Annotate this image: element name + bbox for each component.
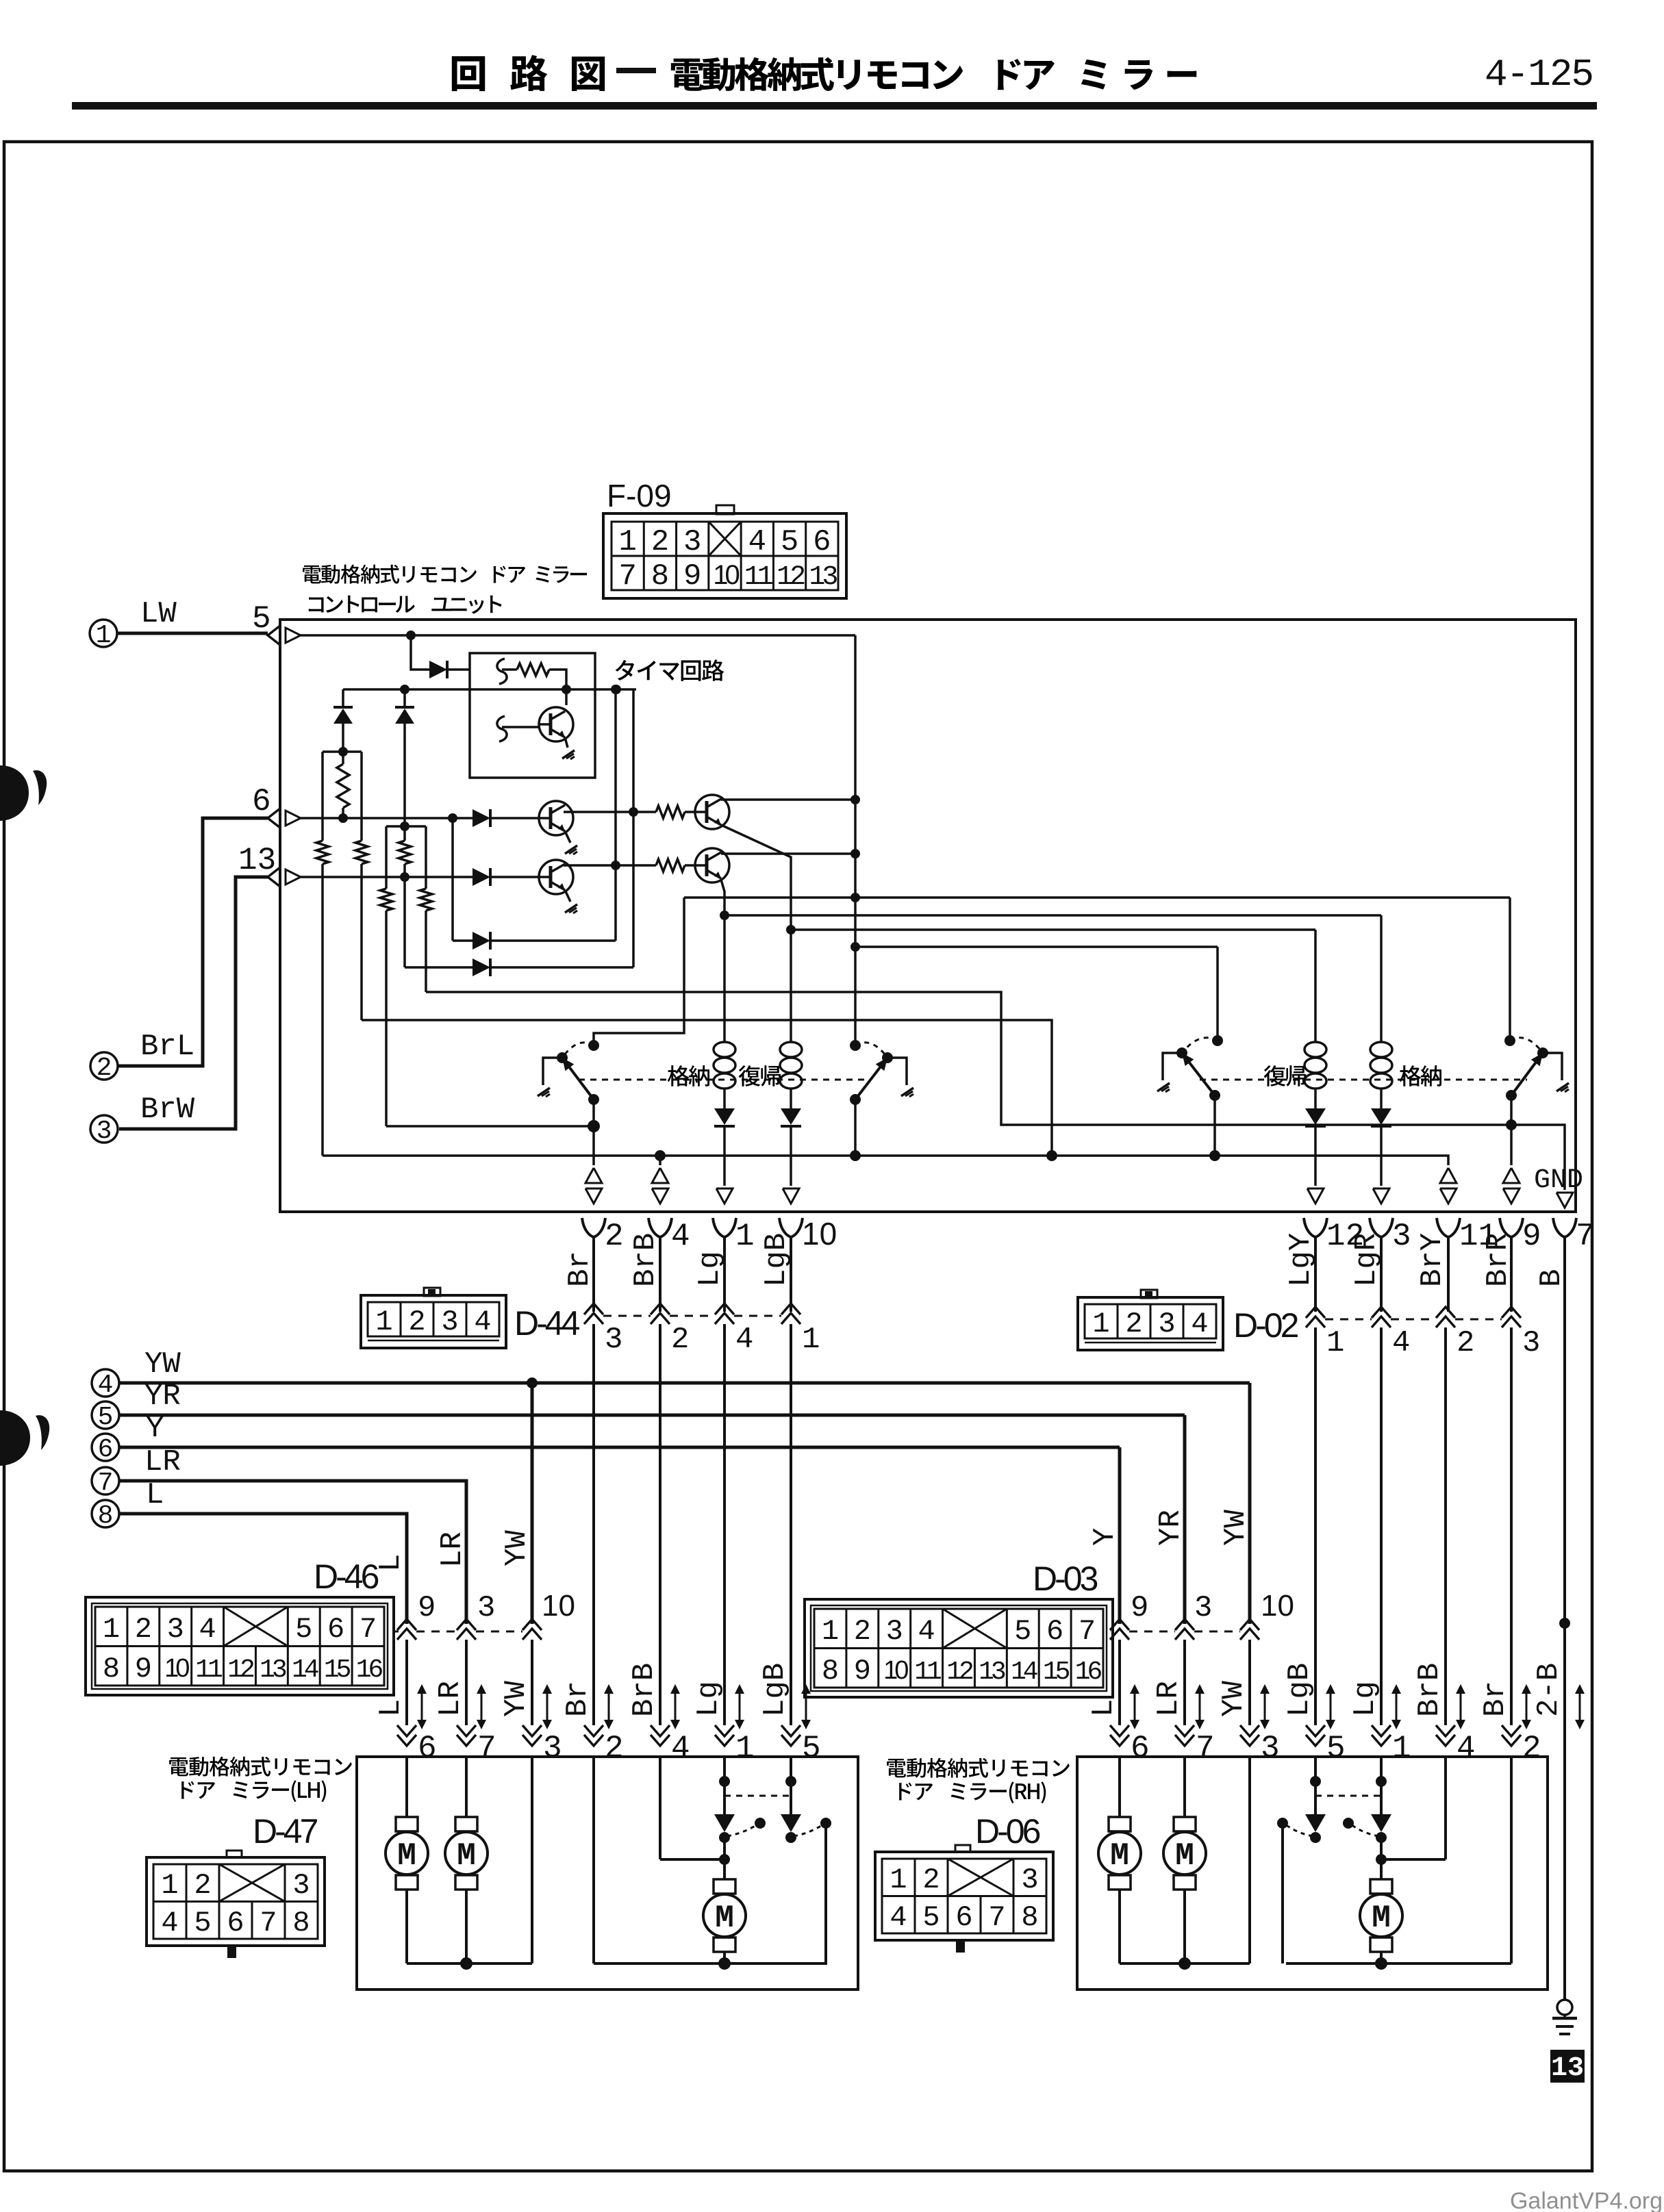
svg-text:LgY: LgY [1284, 1233, 1318, 1287]
svg-text:YW: YW [144, 1347, 181, 1382]
svg-text:5: 5 [781, 525, 798, 559]
svg-text:1: 1 [1092, 1308, 1109, 1340]
svg-text:LR: LR [433, 1681, 468, 1717]
svg-text:3: 3 [292, 1869, 310, 1902]
svg-text:3: 3 [167, 1613, 184, 1646]
svg-text:4: 4 [474, 1306, 491, 1338]
svg-text:3: 3 [605, 1323, 622, 1357]
svg-text:M: M [1175, 1838, 1194, 1874]
svg-text:4: 4 [1392, 1326, 1410, 1360]
svg-text:D-06: D-06 [975, 1812, 1040, 1851]
svg-text:GND: GND [1534, 1165, 1583, 1196]
svg-text:7: 7 [1576, 1219, 1595, 1254]
svg-text:Br: Br [1478, 1681, 1513, 1717]
svg-text:4: 4 [199, 1613, 216, 1646]
svg-text:6: 6 [327, 1613, 344, 1646]
svg-text:LW: LW [140, 597, 177, 631]
svg-text:7: 7 [1079, 1615, 1096, 1648]
svg-text:5: 5 [252, 601, 271, 637]
svg-text:6: 6 [1131, 1731, 1150, 1766]
svg-text:M: M [715, 1900, 734, 1936]
svg-text:YW: YW [1217, 1681, 1251, 1717]
svg-text:12: 12 [946, 1657, 973, 1687]
svg-text:13: 13 [260, 1655, 286, 1685]
svg-text:3: 3 [1522, 1326, 1540, 1360]
svg-text:1: 1 [375, 1306, 392, 1338]
svg-text:2: 2 [1125, 1308, 1142, 1340]
svg-text:5: 5 [295, 1613, 312, 1646]
svg-text:L: L [374, 1554, 408, 1572]
svg-text:16: 16 [356, 1655, 383, 1685]
svg-text:1: 1 [890, 1864, 907, 1896]
svg-text:YW: YW [1219, 1510, 1253, 1546]
svg-text:9: 9 [1522, 1219, 1541, 1254]
svg-text:15: 15 [1043, 1657, 1070, 1687]
svg-text:14: 14 [292, 1655, 318, 1685]
svg-text:2: 2 [605, 1731, 624, 1766]
svg-text:4: 4 [918, 1615, 935, 1648]
svg-text:LR: LR [1152, 1681, 1186, 1717]
svg-text:2: 2 [922, 1864, 940, 1896]
svg-text:3: 3 [441, 1306, 458, 1338]
svg-text:Lg: Lg [692, 1681, 726, 1717]
svg-text:YW: YW [499, 1681, 533, 1717]
svg-text:3: 3 [1158, 1308, 1175, 1340]
svg-text:1: 1 [822, 1615, 839, 1648]
svg-text:1: 1 [618, 525, 636, 559]
svg-text:10: 10 [802, 1216, 837, 1251]
svg-text:12: 12 [777, 562, 805, 593]
svg-text:2: 2 [854, 1615, 871, 1648]
svg-text:BrW: BrW [140, 1093, 195, 1127]
svg-text:10: 10 [1261, 1589, 1294, 1623]
svg-text:1: 1 [103, 1613, 120, 1646]
svg-text:GalantVP4.org: GalantVP4.org [1510, 2188, 1663, 2212]
svg-text:5: 5 [98, 1403, 114, 1432]
svg-text:5: 5 [1014, 1615, 1031, 1648]
svg-text:LgR: LgR [1350, 1233, 1384, 1287]
svg-text:8: 8 [292, 1907, 310, 1940]
svg-text:8: 8 [1021, 1901, 1038, 1934]
svg-text:M: M [397, 1838, 416, 1874]
svg-text:7: 7 [260, 1907, 277, 1940]
svg-text:1: 1 [735, 1731, 755, 1766]
svg-text:4: 4 [735, 1323, 753, 1357]
svg-text:F-09: F-09 [607, 478, 672, 513]
svg-text:3: 3 [1021, 1864, 1038, 1896]
svg-text:Br: Br [561, 1681, 595, 1717]
svg-text:7: 7 [360, 1613, 377, 1646]
svg-text:6: 6 [418, 1731, 437, 1766]
svg-text:7: 7 [98, 1469, 114, 1498]
svg-text:4: 4 [98, 1371, 114, 1400]
svg-text:6: 6 [1046, 1615, 1063, 1648]
svg-text:D-46: D-46 [314, 1558, 379, 1596]
svg-text:3: 3 [543, 1731, 562, 1766]
svg-text:11: 11 [195, 1655, 222, 1685]
svg-text:11: 11 [914, 1657, 941, 1687]
svg-text:5: 5 [802, 1731, 821, 1766]
svg-text:1: 1 [161, 1869, 178, 1902]
svg-text:2: 2 [408, 1306, 425, 1338]
svg-text:10: 10 [542, 1589, 575, 1623]
svg-text:6: 6 [252, 784, 271, 819]
svg-text:3: 3 [1261, 1731, 1280, 1766]
svg-text:9: 9 [1131, 1591, 1148, 1625]
svg-text:8: 8 [822, 1655, 839, 1688]
svg-text:BrB: BrB [627, 1663, 661, 1717]
svg-text:8: 8 [651, 559, 669, 594]
svg-text:16: 16 [1075, 1657, 1102, 1687]
svg-text:9: 9 [135, 1653, 152, 1686]
svg-text:9: 9 [418, 1591, 436, 1625]
svg-text:15: 15 [324, 1655, 351, 1685]
svg-text:4: 4 [1191, 1308, 1208, 1340]
svg-text:9: 9 [683, 559, 701, 594]
svg-text:4-125: 4-125 [1485, 53, 1593, 97]
svg-text:6: 6 [227, 1907, 244, 1940]
svg-text:7: 7 [988, 1901, 1005, 1934]
svg-text:7: 7 [477, 1731, 496, 1766]
svg-text:BrL: BrL [140, 1030, 194, 1064]
svg-text:BrB: BrB [629, 1233, 663, 1287]
svg-text:L: L [146, 1478, 164, 1512]
svg-text:LgB: LgB [758, 1663, 792, 1717]
svg-text:13: 13 [1551, 2053, 1584, 2084]
svg-text:5: 5 [922, 1901, 940, 1934]
svg-text:LgB: LgB [1283, 1663, 1317, 1717]
svg-text:12: 12 [227, 1655, 254, 1685]
svg-text:LR: LR [144, 1445, 181, 1479]
svg-text:1: 1 [1392, 1731, 1411, 1766]
svg-text:2: 2 [194, 1869, 211, 1902]
svg-text:BrY: BrY [1415, 1233, 1450, 1287]
svg-text:M: M [1110, 1838, 1129, 1874]
svg-text:10: 10 [164, 1654, 189, 1683]
svg-text:2: 2 [97, 1054, 112, 1083]
svg-text:3: 3 [477, 1591, 495, 1625]
svg-text:Br: Br [563, 1251, 597, 1287]
svg-text:1: 1 [802, 1323, 820, 1357]
svg-text:D-03: D-03 [1033, 1560, 1098, 1598]
svg-text:LR: LR [436, 1531, 470, 1568]
svg-text:L: L [374, 1699, 408, 1717]
svg-text:4: 4 [671, 1731, 690, 1766]
svg-text:3: 3 [1194, 1591, 1212, 1625]
svg-text:4: 4 [748, 525, 766, 559]
svg-text:13: 13 [238, 843, 276, 878]
svg-text:Lg: Lg [693, 1251, 727, 1287]
svg-text:2: 2 [1457, 1326, 1474, 1360]
svg-text:10: 10 [713, 560, 739, 590]
svg-text:13: 13 [979, 1657, 1005, 1687]
svg-text:LgB: LgB [759, 1233, 794, 1287]
svg-text:3: 3 [683, 525, 701, 559]
svg-text:14: 14 [1011, 1657, 1037, 1687]
svg-text:4: 4 [161, 1907, 178, 1940]
svg-text:2: 2 [605, 1219, 624, 1254]
svg-text:1: 1 [96, 621, 112, 650]
svg-text:1: 1 [1326, 1326, 1344, 1360]
svg-text:1: 1 [735, 1219, 755, 1254]
svg-text:YW: YW [500, 1530, 534, 1566]
svg-text:5: 5 [194, 1907, 211, 1940]
svg-text:Lg: Lg [1348, 1681, 1383, 1717]
svg-text:2: 2 [1522, 1731, 1541, 1766]
svg-text:5: 5 [1326, 1731, 1346, 1766]
svg-text:8: 8 [98, 1501, 114, 1531]
svg-text:8: 8 [103, 1653, 120, 1686]
svg-text:3: 3 [97, 1117, 112, 1146]
svg-text:4: 4 [671, 1219, 690, 1254]
svg-text:6: 6 [955, 1901, 972, 1934]
svg-text:BrB: BrB [1413, 1663, 1447, 1717]
svg-text:3: 3 [886, 1615, 903, 1648]
svg-text:Y: Y [1088, 1528, 1122, 1546]
svg-text:D-47: D-47 [253, 1812, 318, 1851]
svg-text:M: M [457, 1838, 476, 1874]
svg-text:3: 3 [1392, 1219, 1411, 1254]
svg-text:9: 9 [854, 1655, 871, 1688]
svg-text:BrR: BrR [1481, 1233, 1515, 1287]
svg-text:2: 2 [135, 1613, 152, 1646]
svg-text:D-44: D-44 [514, 1304, 580, 1343]
svg-text:YR: YR [1154, 1510, 1188, 1546]
svg-text:D-02: D-02 [1233, 1306, 1298, 1345]
svg-text:6: 6 [98, 1435, 114, 1464]
svg-text:10: 10 [883, 1656, 908, 1685]
svg-text:11: 11 [744, 562, 773, 593]
svg-text:M: M [1372, 1900, 1391, 1936]
svg-text:L: L [1087, 1699, 1121, 1717]
svg-text:2: 2 [671, 1323, 689, 1357]
svg-text:7: 7 [1196, 1731, 1215, 1766]
svg-text:4: 4 [1457, 1731, 1476, 1766]
svg-text:13: 13 [809, 562, 837, 593]
svg-text:7: 7 [618, 559, 636, 594]
svg-text:6: 6 [813, 525, 831, 559]
svg-text:2-B: 2-B [1532, 1663, 1566, 1717]
svg-text:4: 4 [890, 1901, 907, 1934]
svg-text:2: 2 [651, 525, 669, 559]
